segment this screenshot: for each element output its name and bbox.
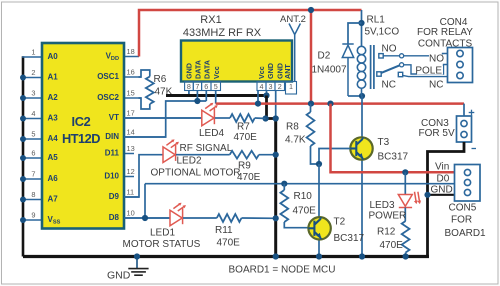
svg-text:11: 11 [127, 188, 135, 197]
wire: address bus vertical (A0-Vss to GND) [22, 56, 25, 256]
IC2 left pin labels A0-A7 Vss [48, 52, 61, 226]
wire: T2 emitter to ground rail [318, 240, 320, 257]
wire: VT to LED4 [124, 117, 202, 119]
svg-text:RL1: RL1 [367, 15, 386, 26]
CON4 terminal circles [457, 50, 463, 78]
svg-text:1: 1 [31, 48, 35, 57]
junction dots on address bus [20, 75, 26, 224]
IC2 right pin labels [97, 52, 119, 223]
svg-text:18: 18 [127, 47, 135, 56]
svg-text:T3: T3 [378, 137, 390, 148]
junction dot Vin/LED3 [402, 169, 408, 175]
svg-text:OSC2: OSC2 [97, 93, 119, 102]
CON5 terminal circles [464, 169, 470, 195]
svg-text:VT: VT [109, 113, 119, 122]
wire: RX1 pin3 GND drop [266, 91, 268, 96]
svg-text:OSC1: OSC1 [97, 72, 119, 81]
svg-text:6: 6 [204, 82, 208, 91]
wire: CON3 plus drop [463, 104, 465, 116]
svg-text:A6: A6 [48, 174, 59, 183]
connector CON5 body [455, 165, 481, 202]
wire: +5V to Vin of CON5 (red) [331, 104, 455, 173]
svg-text:5: 5 [214, 82, 218, 91]
pin numbers 1-9 for IC2 left side [31, 48, 35, 220]
svg-text:A1: A1 [48, 73, 59, 82]
contact circle on NO line [400, 54, 404, 58]
svg-text:ANT.2: ANT.2 [280, 14, 306, 25]
svg-text:Vcc: Vcc [257, 66, 266, 79]
svg-text:ANT: ANT [283, 64, 292, 79]
svg-text:D9: D9 [109, 192, 120, 201]
wire: D8 to LED1 [124, 217, 170, 219]
resistor R12 [402, 221, 410, 253]
wire: RX1 pin5 Vcc drop [215, 91, 217, 104]
svg-text:POLE: POLE [415, 66, 442, 77]
svg-text:RX1: RX1 [200, 14, 221, 26]
wire: NC to CON4 [403, 75, 448, 76]
svg-text:3: 3 [31, 89, 35, 98]
CON4 NO pin label [429, 55, 445, 63]
svg-text:LED2: LED2 [177, 156, 202, 167]
antenna ANT.2 [289, 24, 300, 82]
wire: T2 collector up to junction [318, 164, 320, 217]
svg-text:D8: D8 [109, 213, 120, 222]
CON4 POLE pin label [417, 66, 443, 75]
transistor T3 [350, 137, 372, 159]
wire: Vin line down to LED3 [404, 172, 406, 194]
junction dot top rail x=311 [308, 7, 314, 13]
svg-text:13: 13 [127, 144, 135, 153]
wire: ground rail (black) [23, 255, 429, 258]
svg-text:GND: GND [431, 184, 453, 195]
relay RL1 coil [357, 46, 365, 96]
junction dot R11/ground [273, 215, 279, 221]
wire: RX1 ground bar (black) [166, 94, 267, 97]
svg-text:OPTIONAL MOTOR: OPTIONAL MOTOR [151, 168, 241, 179]
svg-text:470E: 470E [237, 172, 261, 183]
svg-text:A4: A4 [48, 134, 59, 143]
relay RL1 core lines [371, 45, 374, 89]
junction dot rail at pin4 [255, 101, 261, 107]
wire: R6 bottom to OSC2 [139, 98, 150, 109]
svg-text:BOARD1 = NODE MCU: BOARD1 = NODE MCU [229, 264, 336, 275]
resistor R10 [280, 190, 288, 222]
junction dot pin3/ground bar [263, 92, 269, 98]
RF receiver module RX1 body [181, 41, 292, 82]
svg-text:470E: 470E [380, 240, 404, 251]
wire: NO contact to CON4 [383, 55, 399, 57]
wire: POLE to CON4 [404, 65, 448, 75]
svg-text:R11: R11 [215, 225, 233, 236]
wire: CON3 minus to ground (black) [428, 142, 465, 257]
svg-text:D10: D10 [104, 172, 119, 181]
CON3 terminal circles [461, 120, 467, 137]
wire: main ground drop to rail (black) [274, 119, 277, 257]
junction dot R8/T2 collector/T3 base [316, 161, 322, 167]
RX1 pin number boxes [185, 82, 297, 95]
svg-text:5: 5 [31, 130, 35, 139]
svg-text:T2: T2 [334, 217, 346, 228]
wire: LED4 to R7 [215, 117, 230, 119]
resistor R8 [307, 112, 315, 146]
resistor R11 [217, 214, 242, 222]
svg-text:DIN: DIN [105, 132, 119, 141]
svg-text:16: 16 [127, 68, 135, 77]
RX1 rotated pin labels [184, 60, 292, 79]
junction dot relay/diode top [358, 20, 364, 26]
wire: D9 to LED2 feed [124, 155, 163, 197]
wire: LED1 row branch up to D0 line [144, 184, 146, 218]
wire: ground jog down from bar (black) [265, 96, 268, 119]
wire: T3 emitter to ground rail [361, 160, 363, 257]
svg-text:FOR: FOR [451, 215, 472, 226]
wire: DATA line to DIN [124, 101, 206, 137]
junction dot DATA pins [194, 98, 200, 104]
svg-text:R10: R10 [294, 191, 313, 202]
svg-text:CON5: CON5 [449, 203, 477, 214]
diode D2 [342, 44, 353, 96]
junction dot CON5 gnd/CON3 gnd drop [424, 192, 430, 198]
svg-text:LED4: LED4 [199, 128, 224, 139]
svg-text:DATA: DATA [194, 60, 203, 79]
resistor R9 [230, 151, 259, 159]
wire: red vertical from top rail to +5V rail at x=311 [310, 10, 313, 104]
svg-text:GND: GND [107, 269, 131, 281]
svg-text:7: 7 [195, 82, 199, 91]
svg-text:Vcc: Vcc [212, 66, 221, 79]
svg-text:A0: A0 [48, 52, 59, 61]
svg-text:DATA: DATA [203, 60, 212, 79]
svg-text:NC: NC [382, 80, 396, 91]
resistor R6 [146, 77, 154, 105]
svg-text:IC2: IC2 [71, 114, 90, 129]
svg-text:3: 3 [269, 82, 273, 91]
junction dot D0/R10 [281, 181, 287, 187]
relay armature arm [381, 65, 401, 73]
relay NC fixed contact pad [398, 72, 402, 76]
pin numbers for IC2 right side [127, 47, 135, 218]
wire: RX1 pin4 Vcc drop [257, 91, 259, 104]
svg-text:4.7K: 4.7K [285, 135, 306, 146]
wire: R8 bottom to junction [311, 146, 320, 164]
svg-text:RF SIGNAL: RF SIGNAL [180, 143, 233, 154]
svg-text:15: 15 [127, 89, 135, 98]
relay NO fixed contact pad [379, 54, 383, 58]
svg-text:Vin: Vin [435, 162, 449, 173]
svg-text:R6: R6 [154, 74, 167, 85]
wire: RX1 pin6 DATA drop [205, 91, 207, 102]
svg-text:4: 4 [260, 82, 264, 91]
svg-text:GND: GND [184, 63, 193, 79]
svg-text:A2: A2 [48, 93, 59, 102]
svg-text:470E: 470E [293, 206, 317, 217]
svg-text:1: 1 [289, 82, 293, 91]
op-amp/decoder IC U: IC2 HT12D body [42, 43, 124, 229]
wire: NO line continues to CON4 pin [404, 54, 448, 56]
wire: VDD pin18 to +5V top rail (red) [139, 10, 362, 57]
svg-text:1N4007: 1N4007 [312, 65, 347, 76]
svg-text:MOTOR STATUS: MOTOR STATUS [123, 239, 201, 250]
junction dot rail at Vin branch [327, 101, 333, 107]
svg-text:4: 4 [31, 109, 35, 118]
wire: D2 anode to coil bottom [348, 95, 362, 97]
svg-text:9: 9 [31, 211, 35, 220]
svg-text:8: 8 [31, 190, 35, 199]
svg-text:NO: NO [429, 54, 444, 65]
svg-text:5V,1CO: 5V,1CO [365, 27, 400, 38]
svg-text:FOR RELAY: FOR RELAY [417, 27, 473, 38]
RX1 pin numbers 8-1 [187, 82, 293, 91]
CON3 minus sign [472, 148, 477, 150]
svg-text:A3: A3 [48, 114, 59, 123]
wire: R10 bottom to T2 base [284, 222, 308, 228]
wire: +5V horizontal rail (red) [216, 102, 464, 105]
svg-text:D0: D0 [437, 173, 450, 184]
LED LED1 [170, 203, 186, 226]
wire: LED3 to R12 [404, 208, 406, 222]
junction dot pin2 ground jog [273, 115, 279, 121]
junction dot R9/ground [273, 152, 279, 158]
wire: relay coil bottom to T3 collector [361, 96, 363, 137]
svg-text:LED3: LED3 [370, 200, 395, 211]
junction dot rail at R8 [308, 101, 314, 107]
svg-text:D2: D2 [318, 51, 331, 62]
svg-text:BC317: BC317 [334, 233, 365, 244]
wire: IC2 right pin stubs [124, 57, 202, 219]
wire: LED1 to R11 [183, 217, 217, 219]
wire: RX1 pin2 GND drop [275, 91, 277, 119]
wire: IC2 left pin stubs [22, 57, 42, 220]
svg-text:NC: NC [429, 80, 443, 91]
svg-text:GND: GND [266, 63, 275, 79]
junction dot R7 to ground jog [263, 115, 269, 121]
contact circle at arm tip [400, 63, 404, 67]
junction dot D8 row to D0 branch [142, 215, 148, 221]
wire: RX1 pin8 GND drop [188, 91, 190, 96]
resistor R7 [230, 114, 255, 122]
wire: branch to D2 cathode [348, 23, 362, 44]
wire: R10 top from D0 line [283, 184, 285, 190]
junction dot coil bottom [359, 93, 365, 99]
relay pole pivot pad [377, 72, 381, 76]
ground symbol [128, 257, 148, 276]
svg-text:BC317: BC317 [378, 151, 409, 162]
wire: R11 to ground line [242, 217, 276, 219]
wire: R9 to ground line [259, 154, 276, 156]
connector CON3 body [457, 116, 472, 142]
svg-text:R7: R7 [237, 121, 250, 132]
wire: RX1 pin7 DATA drop [196, 91, 198, 102]
junction dots on ground rail [134, 253, 409, 259]
svg-text:10: 10 [127, 209, 135, 218]
svg-text:2: 2 [31, 68, 35, 77]
svg-text:7: 7 [31, 170, 35, 179]
svg-text:R12: R12 [377, 226, 396, 237]
wire: OSC1 to R6 top [139, 70, 150, 77]
wire: junction up to T3 base [319, 149, 350, 165]
svg-text:470E: 470E [217, 237, 241, 248]
svg-text:HT12D: HT12D [62, 131, 100, 146]
wire: R12 to ground rail [405, 253, 407, 257]
connector CON4 body [448, 48, 473, 83]
svg-text:A7: A7 [48, 195, 59, 204]
svg-text:A5: A5 [48, 153, 59, 162]
LED LED2 [163, 139, 179, 162]
svg-text:NO: NO [382, 44, 397, 55]
wire: CON5 GND row (black) [428, 194, 455, 196]
wire: R8 top from +5V rail [310, 104, 312, 112]
wire: ground jog horizontal (black) [266, 117, 276, 120]
wire: relay top feed from red rail [361, 10, 363, 47]
svg-text:FOR 5V: FOR 5V [419, 128, 455, 139]
LED LED4 [202, 103, 218, 126]
svg-text:LED1: LED1 [150, 227, 175, 238]
svg-text:6: 6 [31, 149, 35, 158]
svg-text:2: 2 [278, 82, 282, 91]
svg-text:D11: D11 [105, 149, 120, 158]
svg-text:R8: R8 [286, 122, 299, 133]
wire: LED2 to R9 [176, 154, 230, 156]
svg-text:BOARD1: BOARD1 [445, 228, 487, 239]
wire: R7 to ground jog [255, 117, 266, 120]
svg-text:12: 12 [127, 167, 135, 176]
svg-text:R9: R9 [238, 160, 251, 171]
svg-text:17: 17 [127, 109, 135, 118]
svg-text:433MHZ RF RX: 433MHZ RF RX [183, 27, 262, 39]
svg-text:470E: 470E [234, 132, 258, 143]
svg-text:14: 14 [127, 128, 135, 137]
svg-text:POWER: POWER [369, 211, 407, 222]
wire: D0 line to CON5 (node D0) [145, 183, 455, 185]
transistor T2 [308, 217, 330, 239]
CON3 plus sign [469, 110, 475, 116]
LED LED3 [398, 192, 421, 208]
svg-text:8: 8 [187, 82, 191, 91]
